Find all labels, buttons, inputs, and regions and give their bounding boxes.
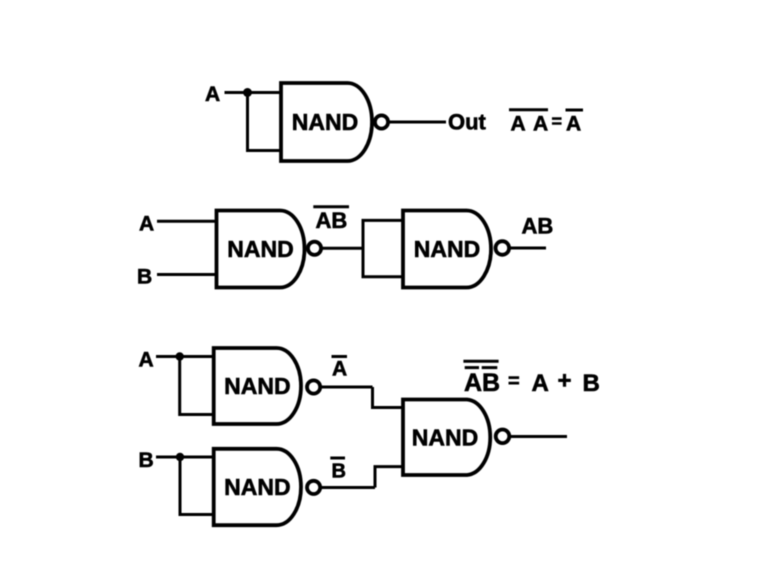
svg-text:A: A	[566, 113, 581, 136]
tied-input bracket into U3	[363, 220, 403, 276]
junction dot on A wire	[176, 352, 184, 360]
wire jog down into U6 top input	[373, 387, 404, 408]
wire branch down to U5 bottom input	[180, 457, 214, 515]
svg-text:A: A	[532, 370, 549, 397]
wire B to U2 bottom input	[157, 273, 217, 276]
output bubble U3	[496, 241, 510, 255]
junction dot on A wire	[243, 88, 252, 97]
svg-text:A: A	[205, 83, 220, 106]
svg-text:B: B	[137, 266, 152, 289]
svg-text:AB: AB	[316, 208, 348, 233]
formula A-bar A-bar = A-bar : overbar over A A	[509, 108, 548, 111]
svg-text:B: B	[139, 449, 154, 472]
output bubble U5	[307, 481, 320, 494]
wire A to U4 top input	[156, 355, 214, 358]
net label B-bar : overbar	[330, 457, 345, 460]
svg-text:B: B	[583, 370, 600, 397]
svg-text:=: =	[552, 112, 563, 132]
svg-text:NAND: NAND	[414, 236, 480, 262]
NAND gate U5 body	[214, 449, 301, 525]
wire U2 output to U3 tied inputs	[323, 247, 364, 250]
svg-text:AB: AB	[522, 214, 554, 239]
svg-text:AB: AB	[464, 369, 500, 397]
NAND gate U3 body	[403, 211, 491, 288]
svg-text:NAND: NAND	[224, 474, 290, 500]
output bubble U6	[496, 430, 510, 444]
svg-text:NAND: NAND	[412, 425, 478, 451]
svg-text:A: A	[332, 358, 347, 381]
output bubble U1	[375, 115, 388, 128]
svg-text:=: =	[508, 371, 520, 393]
wire B to U5 top input	[156, 456, 214, 459]
NAND gate U6 body	[403, 400, 490, 476]
wire U6 output	[511, 435, 568, 438]
net label A-bar : overbar	[332, 355, 348, 358]
net label AB-bar : overbar	[313, 205, 349, 208]
svg-text:A: A	[533, 113, 548, 136]
junction dot on B wire	[176, 453, 184, 461]
formula inner overbar over B	[482, 366, 498, 369]
formula inner overbar over A	[465, 366, 479, 369]
wire U3 output	[511, 247, 547, 250]
svg-text:A: A	[139, 349, 154, 372]
wire U4 output toward U6	[322, 386, 373, 389]
output bubble U2	[308, 242, 321, 255]
wire from A to gate U1 top input	[225, 91, 282, 94]
NAND gate U1 body	[281, 83, 372, 161]
svg-text:A: A	[511, 113, 526, 136]
formula overbar over result A	[566, 109, 584, 112]
output bubble U4	[307, 380, 320, 393]
formula double-overbar AB = A + B : outer overbar	[463, 360, 498, 363]
wire A to U2 top input	[157, 220, 217, 223]
svg-text:B: B	[332, 461, 346, 483]
svg-text:NAND: NAND	[227, 236, 293, 262]
NAND gate U4 body	[214, 348, 301, 424]
wire jog up into U6 bottom input	[375, 467, 403, 488]
wire U5 output toward U6	[322, 486, 376, 489]
svg-text:A: A	[139, 213, 154, 236]
svg-text:NAND: NAND	[292, 109, 358, 135]
wire U1 output to Out	[390, 121, 447, 124]
svg-text:NAND: NAND	[224, 373, 290, 399]
wire branch down to U1 bottom input	[248, 93, 282, 151]
NAND gate U2 body	[217, 211, 305, 288]
wire branch down to U4 bottom input	[180, 357, 214, 415]
svg-text:+: +	[558, 368, 572, 395]
svg-text:Out: Out	[448, 110, 487, 135]
